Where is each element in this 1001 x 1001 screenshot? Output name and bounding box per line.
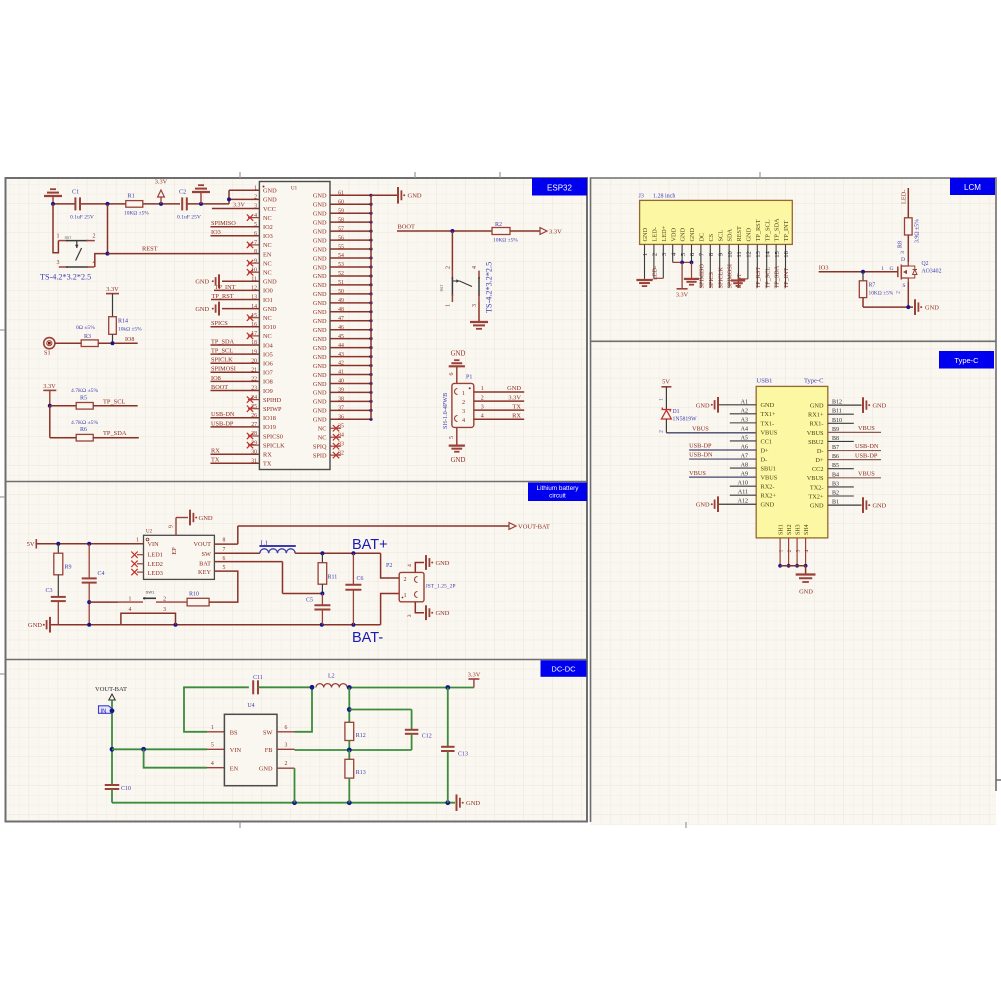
svg-text:GND: GND — [313, 417, 327, 424]
capacitor C4 — [82, 544, 105, 625]
left panel section divider 2 — [6, 659, 588, 661]
svg-text:3: 3 — [57, 260, 60, 266]
svg-text:SPICLK: SPICLK — [263, 442, 285, 449]
capacitor C3 — [45, 575, 65, 625]
svg-text:SPICS: SPICS — [708, 271, 715, 288]
svg-text:TX: TX — [263, 461, 272, 468]
svg-text:LED-: LED- — [901, 190, 908, 204]
svg-text:C5: C5 — [306, 598, 313, 604]
svg-text:3.3V: 3.3V — [676, 292, 689, 299]
svg-text:GND: GND — [696, 402, 710, 409]
svg-text:GND: GND — [313, 381, 327, 388]
svg-text:B11: B11 — [832, 409, 842, 415]
section title box LCM — [950, 178, 995, 195]
svg-text:D: D — [901, 257, 905, 263]
svg-text:1: 1 — [446, 304, 452, 307]
svg-text:Lithium battery: Lithium battery — [537, 485, 580, 492]
svg-text:4: 4 — [462, 417, 465, 424]
svg-text:CS: CS — [708, 233, 715, 241]
svg-text:1: 1 — [254, 186, 257, 192]
ground symbol at GND bus top — [371, 187, 422, 204]
svg-text:C13: C13 — [458, 752, 468, 758]
svg-text:TP_SCL: TP_SCL — [764, 267, 771, 289]
svg-text:TX2-: TX2- — [810, 484, 824, 491]
svg-text:circuit: circuit — [549, 493, 566, 500]
svg-text:3: 3 — [254, 204, 257, 210]
wire C4 to SW1 pin1 — [89, 601, 118, 603]
svg-text:IO8: IO8 — [211, 375, 221, 382]
svg-text:SPIMISO: SPIMISO — [211, 220, 236, 227]
wire GND bus vertical — [370, 195, 372, 419]
svg-text:IO0: IO0 — [263, 288, 273, 295]
svg-text:16: 16 — [783, 251, 790, 258]
svg-text:SPICS0: SPICS0 — [263, 433, 283, 440]
IC U1 right pin names GND column — [313, 193, 327, 460]
wire R8 to Q2 drain — [900, 235, 909, 263]
connector USB1 shield pins SH1-SH4 — [778, 524, 810, 567]
wire ground to switch pin1 — [53, 204, 58, 253]
svg-text:C1: C1 — [72, 189, 79, 196]
svg-text:3.3V: 3.3V — [155, 179, 168, 186]
svg-text:B7: B7 — [832, 445, 839, 451]
svg-text:GND: GND — [313, 246, 327, 253]
svg-text:3.3V: 3.3V — [233, 202, 246, 208]
svg-text:GND: GND — [263, 197, 277, 204]
svg-text:GND: GND — [761, 502, 775, 509]
svg-text:D1: D1 — [673, 409, 680, 415]
svg-text:3: 3 — [481, 404, 484, 410]
resistor R11 — [318, 553, 337, 595]
svg-text:NC: NC — [263, 333, 272, 340]
wire net VBUS to USB1 A4 — [666, 425, 756, 433]
svg-text:R6: R6 — [80, 427, 87, 433]
svg-text:VBUS: VBUS — [858, 425, 875, 432]
ground symbol USB1 B12 — [863, 397, 887, 413]
svg-text:GND: GND — [313, 345, 327, 352]
svg-text:A11: A11 — [738, 490, 748, 496]
svg-text:LED-: LED- — [652, 227, 659, 241]
svg-text:TX1-: TX1- — [761, 420, 775, 427]
diode D1 1N5819W — [659, 387, 698, 433]
svg-text:DC-DC: DC-DC — [551, 665, 576, 674]
wire to U4 EN — [144, 749, 225, 767]
power port 3.3V above R14 — [106, 286, 119, 317]
resistor R14 — [109, 317, 142, 344]
svg-text:GND: GND — [436, 560, 450, 567]
svg-text:VBUS: VBUS — [692, 425, 709, 432]
svg-text:R5: R5 — [80, 395, 87, 401]
wire U4 SW to inductor node — [277, 685, 314, 732]
svg-text:2: 2 — [284, 761, 287, 767]
wire SW node to R12 and C12 — [347, 688, 412, 730]
svg-text:SW: SW — [202, 551, 212, 558]
svg-text:A8: A8 — [741, 463, 748, 469]
svg-text:LED1: LED1 — [148, 552, 163, 559]
resistor R1 — [126, 193, 143, 208]
svg-text:IO7: IO7 — [263, 370, 273, 377]
svg-text:SW: SW — [263, 729, 273, 736]
svg-text:VDD: VDD — [670, 227, 677, 241]
capacitor C2 — [177, 189, 201, 221]
svg-text:A5: A5 — [741, 435, 748, 441]
svg-text:C2: C2 — [179, 189, 186, 196]
wire U2 VOUT to VOUT-BAT port — [214, 526, 509, 544]
svg-text:15: 15 — [774, 251, 781, 258]
svg-text:Type-C: Type-C — [954, 356, 979, 365]
svg-text:RST: RST — [440, 285, 444, 292]
ground symbol battery section left — [28, 617, 58, 633]
svg-text:4: 4 — [129, 607, 132, 613]
svg-text:D-: D- — [761, 456, 768, 463]
svg-text:GND: GND — [925, 305, 939, 312]
connector P2 JST_1.25_2P body — [386, 563, 424, 602]
transistor Q2 AO3402 — [881, 261, 941, 294]
svg-text:SPIMISO: SPIMISO — [699, 264, 706, 289]
svg-text:SCL: SCL — [717, 230, 724, 242]
svg-text:CC2: CC2 — [812, 466, 824, 473]
svg-text:GND: GND — [313, 237, 327, 244]
svg-text:ESP32: ESP32 — [547, 184, 572, 193]
svg-text:R7: R7 — [869, 283, 876, 289]
svg-text:GND: GND — [313, 273, 327, 280]
svg-text:9: 9 — [169, 525, 175, 528]
ground symbol DC-DC — [457, 794, 481, 811]
svg-text:12: 12 — [746, 251, 753, 258]
svg-text:GND: GND — [466, 800, 480, 807]
ground symbol at P2 pin4 — [426, 555, 450, 570]
left schematic sheet panel — [6, 178, 588, 822]
connector J3 LCM 1.28 inch body — [639, 194, 793, 245]
wire switch pin4 to REST junction — [95, 254, 108, 267]
svg-text:R10: R10 — [189, 592, 199, 598]
svg-text:U1: U1 — [291, 187, 298, 192]
svg-text:GND: GND — [408, 193, 422, 200]
svg-text:TP_SCL: TP_SCL — [764, 219, 771, 241]
ground earth symbol J3 pin12 — [731, 279, 748, 286]
svg-text:SPIWP: SPIWP — [263, 406, 282, 413]
svg-text:IO3: IO3 — [211, 229, 221, 236]
right schematic sheet panel — [591, 178, 997, 825]
svg-text:A1: A1 — [741, 399, 748, 405]
svg-text:6: 6 — [449, 373, 455, 376]
wire U2 SW to L1 — [214, 552, 260, 554]
wire net TP_SDA through R6 — [50, 430, 139, 438]
svg-text:4: 4 — [211, 761, 214, 767]
connector USB1 right pin names — [807, 403, 824, 510]
svg-text:LED3: LED3 — [148, 570, 163, 577]
svg-text:TP_SDA: TP_SDA — [774, 218, 781, 242]
svg-text:C6: C6 — [357, 576, 364, 582]
svg-text:A12: A12 — [738, 499, 748, 505]
svg-text:SH1: SH1 — [779, 524, 785, 535]
svg-text:1: 1 — [211, 725, 214, 731]
svg-text:SPICLK: SPICLK — [717, 267, 724, 289]
svg-text:IO19: IO19 — [263, 424, 276, 431]
svg-text:GND: GND — [313, 336, 327, 343]
svg-text:GND: GND — [873, 503, 887, 510]
svg-text:R13: R13 — [356, 770, 366, 776]
svg-text:GND: GND — [313, 291, 327, 298]
wire R7 and Q2 source to ground — [863, 281, 913, 309]
connector P1 SH-1.0-4PWB body — [452, 375, 474, 428]
svg-text:GND: GND — [451, 351, 466, 358]
svg-text:VOUT-BAT: VOUT-BAT — [518, 524, 550, 531]
wire L2 to 3.3V output rail — [347, 685, 474, 690]
capacitor C11 — [253, 675, 263, 694]
svg-text:VBUS: VBUS — [689, 470, 706, 477]
section title box Lithium battery circuit — [528, 483, 587, 502]
wire U2 BAT to R11-C5 node — [214, 562, 322, 594]
svg-text:4: 4 — [481, 413, 484, 419]
resistor R5 — [71, 388, 98, 409]
svg-text:GND: GND — [810, 502, 824, 509]
svg-text:D-: D- — [817, 448, 824, 455]
switch RST TS-4.2x3.2x2.5 — [57, 234, 96, 268]
svg-text:RX1+: RX1+ — [808, 412, 824, 419]
svg-text:SDA: SDA — [727, 228, 734, 241]
svg-text:GND: GND — [195, 306, 209, 313]
svg-text:BS: BS — [230, 729, 238, 736]
wire BAT+ to P2 pin2 — [381, 553, 400, 578]
svg-text:C4: C4 — [98, 571, 105, 577]
net label LED- at J3 pin2 — [652, 266, 664, 280]
switch BOOT TS-4.2x3.2x2.5 rotated — [440, 231, 479, 307]
svg-text:4: 4 — [804, 549, 810, 552]
svg-text:TP_INT: TP_INT — [783, 220, 790, 241]
svg-text:NC: NC — [263, 315, 272, 322]
svg-text:5: 5 — [449, 436, 455, 439]
svg-text:TS-4.2*3.2*2.5: TS-4.2*3.2*2.5 — [485, 262, 494, 313]
svg-text:GND: GND — [313, 390, 327, 397]
resistor R10 — [187, 592, 209, 606]
svg-text:GND: GND — [799, 589, 813, 596]
svg-text:A6: A6 — [741, 445, 748, 451]
ground earth symbol above P1 — [449, 351, 466, 367]
svg-text:3.3V: 3.3V — [43, 383, 56, 390]
svg-text:GND: GND — [28, 622, 42, 629]
svg-text:3: 3 — [472, 304, 478, 307]
svg-text:IO18: IO18 — [263, 415, 276, 422]
connector USB1 Type-C body — [756, 378, 828, 538]
wire C11 to SW node — [258, 686, 312, 688]
wire R10 to U2 KEY — [209, 571, 238, 602]
svg-text:Type-C: Type-C — [804, 378, 823, 385]
svg-text:1: 1 — [778, 549, 784, 552]
svg-text:JST_1.25_2P: JST_1.25_2P — [426, 583, 456, 589]
svg-text:1: 1 — [136, 537, 139, 543]
svg-text:1: 1 — [462, 390, 465, 397]
IC U2 charger body — [144, 530, 215, 580]
svg-text:3: 3 — [284, 743, 287, 749]
svg-text:VCC: VCC — [263, 206, 276, 213]
svg-text:NC: NC — [263, 260, 272, 267]
wire 5V to U2 VIN — [36, 542, 143, 546]
wire net BOOT to R2 — [397, 224, 492, 234]
resistor R7 — [859, 272, 893, 298]
svg-text:GND: GND — [451, 457, 466, 464]
svg-text:TP_SDA: TP_SDA — [211, 338, 235, 345]
svg-text:2: 2 — [481, 395, 484, 401]
svg-text:IO5: IO5 — [263, 351, 273, 358]
wire U4 FB feedback — [277, 743, 412, 753]
IC U1 right no-connect X marks — [330, 425, 341, 458]
svg-text:3.3V: 3.3V — [106, 286, 119, 293]
svg-text:C10: C10 — [121, 786, 131, 792]
svg-text:GND: GND — [313, 255, 327, 262]
wire battery GND rail — [58, 623, 380, 627]
svg-text:VOUT-BAT: VOUT-BAT — [95, 686, 127, 693]
wire net IO8 from S1 through R3 — [55, 337, 138, 345]
svg-text:10: 10 — [727, 251, 734, 258]
svg-text:RX2+: RX2+ — [761, 493, 777, 500]
net label LED- backlight wire — [901, 188, 909, 218]
svg-text:EN: EN — [263, 251, 272, 258]
svg-text:GND: GND — [259, 766, 273, 773]
svg-text:10kΩ ±5%: 10kΩ ±5% — [118, 327, 142, 333]
svg-text:2: 2 — [787, 549, 793, 552]
ground symbol at U1 pin 14 — [195, 302, 259, 316]
svg-text:D+: D+ — [761, 447, 770, 454]
svg-text:LED2: LED2 — [148, 561, 163, 568]
svg-text:2: 2 — [254, 195, 257, 201]
svg-text:NC: NC — [318, 426, 327, 433]
svg-text:0.1uF 25V: 0.1uF 25V — [70, 215, 94, 221]
wire L1 to BAT+ node — [295, 551, 381, 555]
svg-text:B5: B5 — [832, 463, 839, 469]
resistor R2 — [492, 222, 518, 244]
svg-text:GND: GND — [313, 399, 327, 406]
svg-text:USB-DP: USB-DP — [211, 420, 234, 427]
resistor R13 — [345, 750, 366, 803]
svg-text:GND: GND — [313, 193, 327, 200]
svg-text:4: 4 — [407, 564, 413, 567]
svg-text:R2: R2 — [495, 222, 502, 228]
power port 3.3V for pullups — [43, 383, 56, 408]
ground earth symbol J3 pin6 — [684, 262, 699, 284]
svg-text:SPICS: SPICS — [211, 320, 228, 327]
right panel section divider — [591, 340, 997, 342]
wire J3 VDD-GND tie pins 4-6 — [673, 261, 694, 289]
svg-text:B1: B1 — [832, 500, 839, 506]
svg-text:A4: A4 — [741, 426, 748, 432]
svg-text:SH2: SH2 — [787, 524, 793, 535]
svg-text:GND: GND — [199, 515, 213, 522]
svg-text:B4: B4 — [832, 472, 839, 478]
svg-text:GND: GND — [873, 403, 887, 410]
svg-text:TP_RST: TP_RST — [755, 219, 762, 241]
svg-text:IO3: IO3 — [819, 264, 829, 271]
svg-text:0Ω ±5%: 0Ω ±5% — [76, 325, 95, 331]
svg-text:BOOT: BOOT — [398, 224, 415, 231]
svg-text:R3: R3 — [84, 334, 91, 340]
svg-text:B9: B9 — [832, 427, 839, 433]
svg-text:BOOT: BOOT — [211, 384, 228, 391]
svg-text:GND: GND — [313, 363, 327, 370]
svg-text:USB-DN: USB-DN — [689, 452, 713, 459]
IC U1 left pin numbers — [251, 186, 257, 465]
resistor R6 — [71, 420, 98, 441]
ground symbol USB1 A1 — [696, 397, 718, 413]
svg-text:NC: NC — [318, 435, 327, 442]
svg-text:3: 3 — [462, 408, 465, 415]
svg-text:TP_RST: TP_RST — [755, 267, 762, 289]
power port 3.3V right of R2 — [510, 228, 562, 236]
svg-text:RX: RX — [512, 412, 521, 419]
svg-text:GND: GND — [642, 227, 649, 241]
svg-text:VBUS: VBUS — [761, 429, 778, 436]
IC U1 ESP32 module body — [259, 182, 330, 470]
svg-text:BAT: BAT — [199, 560, 211, 567]
svg-text:GND: GND — [263, 188, 277, 195]
svg-text:IO8: IO8 — [263, 379, 273, 386]
svg-text:RX: RX — [263, 452, 272, 459]
svg-text:S1: S1 — [44, 350, 51, 357]
wire shield pins to ground — [780, 566, 806, 575]
wire net IO3 to Q2 gate — [819, 264, 898, 274]
svg-text:R12: R12 — [356, 733, 366, 739]
svg-text:B6: B6 — [832, 454, 839, 460]
svg-text:SH4: SH4 — [804, 524, 810, 535]
svg-text:R14: R14 — [118, 319, 128, 325]
ground earth symbol below P1 — [449, 446, 466, 464]
svg-text:GND: GND — [313, 318, 327, 325]
svg-text:IO9: IO9 — [263, 388, 273, 395]
svg-text:TP_SDA: TP_SDA — [774, 265, 781, 288]
svg-text:SBU1: SBU1 — [761, 465, 776, 472]
svg-text:GND: GND — [313, 219, 327, 226]
svg-text:AO3402: AO3402 — [922, 269, 942, 275]
wire net 3.3V to U1 pin 3 — [212, 202, 260, 208]
svg-text:R9: R9 — [65, 565, 72, 571]
IC U2 pin numbers — [136, 525, 225, 571]
svg-text:GND: GND — [313, 282, 327, 289]
svg-text:A10: A10 — [738, 481, 748, 487]
svg-text:NC: NC — [263, 215, 272, 222]
svg-text:VBUS: VBUS — [807, 475, 824, 482]
ground symbol USB1 A12 — [696, 496, 718, 512]
ground GND2 earth symbol above C2 right — [192, 185, 210, 204]
svg-text:BAT+: BAT+ — [352, 537, 388, 553]
connector J3 pin names — [642, 218, 790, 242]
svg-text:3.3V: 3.3V — [468, 672, 481, 679]
svg-text:IO6: IO6 — [263, 361, 273, 368]
svg-text:GND: GND — [313, 211, 327, 218]
svg-text:D+: D+ — [815, 457, 824, 464]
svg-text:SPIMOSI: SPIMOSI — [211, 366, 236, 373]
svg-text:L2: L2 — [328, 674, 335, 680]
svg-text:SPIQ: SPIQ — [313, 443, 327, 450]
wire BAT- to P2 pin1 — [381, 594, 400, 625]
node junctions on 3.3V rail — [51, 202, 203, 206]
svg-text:2: 2 — [896, 291, 902, 294]
svg-text:2: 2 — [93, 234, 96, 240]
wire U2 EP pin9 to ground — [176, 518, 188, 536]
svg-text:GND: GND — [313, 408, 327, 415]
ground symbol at U2 EP — [190, 510, 213, 526]
connector J3 pin stubs and numbers — [642, 244, 790, 287]
connector USB1 A pin designators and stubs — [689, 399, 756, 504]
left panel section divider 1 — [6, 481, 588, 483]
svg-text:B3: B3 — [832, 481, 839, 487]
svg-text:GND: GND — [263, 279, 277, 286]
svg-text:GND: GND — [436, 610, 450, 617]
svg-text:GND: GND — [810, 403, 824, 410]
svg-text:3: 3 — [900, 251, 906, 254]
svg-text:LCM: LCM — [964, 183, 981, 192]
svg-text:SPICLK: SPICLK — [211, 357, 233, 364]
svg-text:KEY: KEY — [198, 569, 211, 576]
wires U1 right GND pins to bus — [330, 194, 373, 421]
